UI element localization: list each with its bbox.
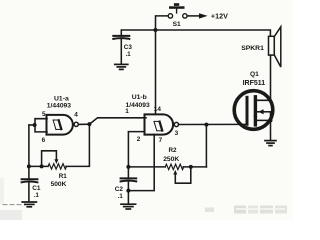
wire Q1 source to ground (270, 120, 272, 140)
svg-text:R1: R1 (59, 173, 68, 180)
svg-text:250K: 250K (163, 156, 179, 163)
wire node to R1 (29, 165, 48, 167)
op-amp U1-a gate body (47, 115, 73, 135)
svg-text:6: 6 (42, 137, 46, 144)
R1 wiper loop (42, 151, 57, 167)
wire U1-a output to U1-b input (78, 118, 144, 125)
wire speaker to Q1 drain (257, 55, 270, 100)
wire rail up to switch S1 (156, 16, 169, 30)
wire C2 node down (127, 167, 129, 178)
svg-text:7: 7 (159, 137, 163, 144)
node R2 riser on gate wire (204, 123, 208, 127)
capacitor C3 (113, 36, 129, 39)
svg-text:.1: .1 (126, 52, 132, 58)
R2 wiper loop (175, 169, 191, 184)
node R2 wiper tie (189, 165, 193, 169)
wire U1-b pin 14 from rail (155, 30, 157, 115)
svg-text:C2: C2 (115, 186, 124, 193)
U1-b output bubble pin 3 (174, 122, 178, 126)
wire R2 to riser (183, 166, 206, 168)
svg-text:U1-a: U1-a (54, 96, 69, 103)
wire U1-b output to Q1 gate (179, 123, 248, 125)
resistor R2 zigzag (165, 164, 184, 169)
U1-a input stubs and tie bar pins 5,6 (35, 119, 47, 132)
U1-a schmitt glyph (53, 120, 61, 129)
U1-b pin 1 input stub (145, 117, 147, 119)
ground below C2 (121, 204, 136, 209)
svg-text:S1: S1 (173, 21, 181, 28)
svg-text:14: 14 (154, 106, 162, 113)
transistor Q1 internals (247, 97, 273, 125)
ground below Q1 (265, 141, 276, 146)
svg-text:2: 2 (137, 136, 141, 143)
svg-text:4: 4 (74, 112, 78, 119)
capacitor C1 (22, 179, 38, 182)
svg-text:5: 5 (42, 111, 46, 118)
arrow +12V (199, 13, 208, 18)
wire C3 to ground (120, 39, 122, 64)
svg-text:R2: R2 (169, 147, 178, 154)
speaker SPKR1 (269, 27, 281, 67)
capacitor C2 (121, 178, 137, 181)
node C1/R1 (27, 164, 31, 168)
node U1-a output feedback (87, 122, 91, 126)
wire feedback drop to R1 (66, 124, 89, 166)
svg-text:500K: 500K (51, 181, 67, 188)
svg-text:SPKR1: SPKR1 (241, 45, 264, 52)
svg-text:.1: .1 (34, 193, 40, 199)
node R1 wiper tie (40, 164, 44, 168)
transistor Q1 circle (234, 91, 273, 130)
ground below C1 (22, 202, 36, 207)
ground below C3 (115, 64, 128, 69)
switch S1 (168, 3, 187, 18)
U1-a output bubble pin 4 (74, 122, 78, 126)
resistor R1 zigzag (48, 164, 66, 169)
svg-text:+12V: +12V (211, 12, 228, 21)
svg-text:1/44093: 1/44093 (47, 103, 71, 110)
scan artifact dashed line (3, 204, 21, 206)
wire C1 to ground (28, 182, 30, 201)
node: rail junction to S1 and U1-b pin 14 (154, 28, 158, 32)
svg-text:1/44093: 1/44093 (126, 102, 150, 109)
svg-text:1: 1 (125, 108, 129, 115)
svg-text:Q1: Q1 (250, 71, 259, 78)
U1-b schmitt glyph (154, 121, 162, 130)
svg-text:C1: C1 (32, 185, 41, 192)
node C2/R2 (126, 165, 130, 169)
svg-text:C3: C3 (124, 44, 133, 51)
wire C2 to ground (127, 181, 129, 203)
wire +12V rail (121, 30, 270, 36)
svg-text:.1: .1 (118, 194, 124, 200)
svg-text:3: 3 (175, 130, 179, 137)
wire R2 riser to gate wire (205, 125, 207, 167)
wire S1 to +12V arrow (187, 15, 199, 17)
svg-text:IRF511: IRF511 (243, 80, 266, 87)
svg-text:U1-b: U1-b (132, 94, 147, 101)
U1-b pin 2 input stub and wire to C2 node (128, 132, 144, 167)
wire U1-a input node down to C1/R1 (28, 125, 30, 179)
op-amp U1-b gate body (145, 114, 174, 134)
wire U1-b pin 7 to ground link (128, 135, 154, 191)
wire node to R2 (128, 166, 165, 168)
node C2 ground link (126, 189, 130, 193)
